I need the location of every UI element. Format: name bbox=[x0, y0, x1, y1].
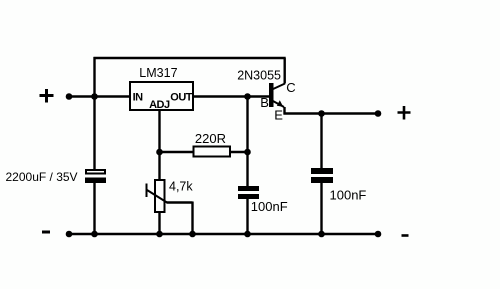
svg-text:LM317: LM317 bbox=[139, 66, 177, 80]
svg-text:100nF: 100nF bbox=[251, 199, 288, 214]
svg-text:IN: IN bbox=[133, 91, 144, 103]
svg-text:E: E bbox=[274, 107, 283, 122]
svg-text:B: B bbox=[260, 95, 269, 110]
svg-text:ADJ: ADJ bbox=[149, 99, 170, 111]
svg-text:100nF: 100nF bbox=[330, 188, 367, 203]
svg-text:220R: 220R bbox=[195, 131, 226, 146]
svg-text:4,7k: 4,7k bbox=[169, 180, 193, 194]
svg-text:2N3055: 2N3055 bbox=[237, 69, 281, 83]
svg-text:OUT: OUT bbox=[170, 91, 193, 103]
svg-text:C: C bbox=[286, 80, 295, 95]
svg-text:2200uF / 35V: 2200uF / 35V bbox=[6, 170, 78, 184]
